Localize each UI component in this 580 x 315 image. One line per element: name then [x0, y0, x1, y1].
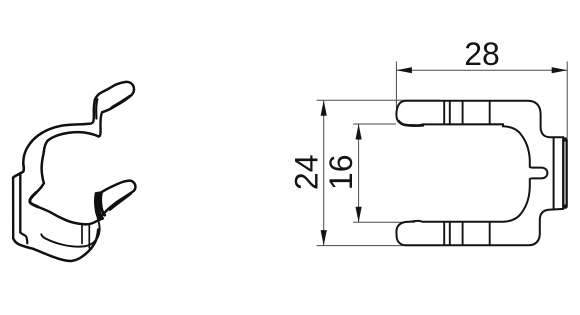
fold vertical 2	[88, 225, 90, 249]
part outline (closed silhouette)	[396, 101, 567, 246]
top strip outer edge	[23, 124, 89, 164]
dim line 16	[358, 124, 360, 222]
dim line 24	[323, 100, 325, 245]
ext line 24 top	[317, 99, 441, 101]
ext line 16 top	[353, 123, 396, 125]
svg-text:28: 28	[464, 36, 500, 72]
left jog into slanted tab cap	[13, 164, 24, 178]
arrow 28 right	[552, 67, 568, 73]
tab right bottom step	[20, 233, 27, 244]
ext line 16 bottom	[353, 221, 415, 223]
upper prong inner edge line	[112, 96, 129, 107]
top prong cap bottom-left heavy ink overdraw	[398, 121, 424, 126]
dimension arrows	[321, 67, 568, 246]
bottom outline	[33, 230, 98, 262]
lower prong inner edge line	[110, 194, 131, 210]
lower bend blob	[98, 193, 102, 218]
finger beak tip overdraw	[30, 193, 38, 207]
right tab bar (dark, edge-on)	[562, 137, 568, 208]
fold vertical 1	[81, 226, 83, 244]
upper prong loop	[95, 82, 134, 112]
clip silhouette	[396, 101, 563, 246]
right tab bar white core	[564, 142, 566, 205]
arrow 24 bottom	[321, 230, 327, 246]
ext line 24 bottom	[317, 245, 441, 247]
bend lines bottom prong	[444, 222, 490, 246]
arrow 16 bottom	[356, 207, 362, 223]
upper bend left edge inner	[96, 99, 97, 118]
lower prong loop	[97, 181, 136, 216]
dome left arc flowing into finger beak and dome bottom arc	[30, 152, 97, 224]
dimension extension lines	[317, 62, 568, 246]
left tab	[13, 174, 20, 238]
top strip inner edge	[44, 132, 99, 152]
arrow 16 top	[356, 124, 362, 140]
dim line 28	[396, 69, 567, 71]
upper bend left edge	[89, 100, 95, 124]
svg-text:16: 16	[323, 155, 359, 191]
arrow 28 left	[396, 67, 412, 73]
tab bottom foot	[13, 238, 33, 249]
body side-face line	[553, 137, 555, 209]
ext line 28 left	[395, 62, 397, 109]
front-right edge curling into inner bottom line	[41, 218, 99, 247]
ext line 28 right	[566, 62, 568, 139]
arrow 24 top	[321, 100, 327, 116]
upper bend right edge	[99, 113, 102, 137]
bend lines top prong	[444, 101, 490, 125]
svg-text:24: 24	[288, 155, 324, 191]
